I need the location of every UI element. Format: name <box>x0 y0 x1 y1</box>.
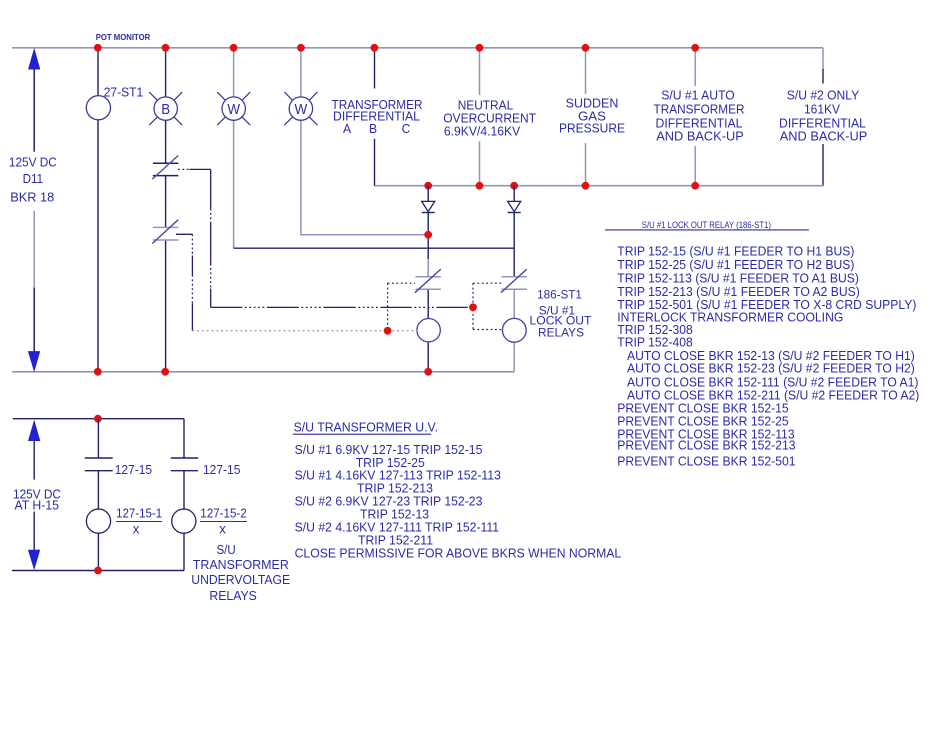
label S/U #1 AUTO TRANSFORMER DIFFERENTIAL AND BACK-UP <box>654 88 745 144</box>
arrow: 125V DC supply (up) <box>28 48 40 70</box>
svg-text:AND BACK-UP: AND BACK-UP <box>780 128 868 143</box>
wire: AT H-15 arrow stem <box>33 441 35 551</box>
wire: contact1 tap dotted horizontal <box>178 168 211 170</box>
svg-text:161KV: 161KV <box>804 102 840 117</box>
wire: transformer differential column <box>374 48 376 186</box>
svg-text:27-ST1: 27-ST1 <box>104 85 144 100</box>
svg-text:AT H-15: AT H-15 <box>15 498 60 513</box>
wire: lower horizontal bus of lockout branches <box>375 185 824 187</box>
diode (left) <box>422 201 435 212</box>
svg-text:S/U #1 AUTO: S/U #1 AUTO <box>661 88 735 103</box>
svg-text:CLOSE PERMISSIVE FOR ABOVE BKR: CLOSE PERMISSIVE FOR ABOVE BKRS WHEN NOR… <box>295 546 622 561</box>
relay 27-ST1 (circle) <box>86 96 110 120</box>
svg-text:186-ST1: 186-ST1 <box>537 287 582 301</box>
junction dot on dotted line (left) <box>384 327 392 335</box>
relay coil 186-ST1 #1 (left circle) <box>417 319 440 342</box>
wire: neutral overcurrent column <box>479 48 481 186</box>
breaker contact (B column lower) <box>152 220 178 244</box>
svg-text:127-15-1: 127-15-1 <box>116 506 162 521</box>
wire: 27-ST1 column vertical <box>97 48 99 372</box>
wire: right branch vertical (S/U #2 column) <box>822 48 824 187</box>
arrow: return (down) <box>28 351 40 372</box>
svg-text:x: x <box>219 521 226 537</box>
svg-text:W: W <box>227 102 240 118</box>
svg-text:C: C <box>402 121 411 136</box>
junction dot on section2 top bus <box>94 415 102 423</box>
svg-text:PREVENT CLOSE BKR 152-501: PREVENT CLOSE BKR 152-501 <box>617 454 795 469</box>
label 186-ST1 S/U #1 LOCK OUT RELAYS <box>530 287 593 339</box>
wire: second section top bus <box>13 418 184 420</box>
junction dots on top bus <box>94 44 699 52</box>
wire: sudden gas pressure column <box>585 48 587 186</box>
wire: lamp B column vertical <box>165 48 167 372</box>
svg-text:127-15-2: 127-15-2 <box>200 506 246 521</box>
undervoltage trip list <box>295 442 622 561</box>
arrow: AT H-15 return (down) <box>28 550 40 570</box>
contact 127-15 (column 2 bars) <box>171 458 198 471</box>
svg-text:127-15: 127-15 <box>115 462 152 477</box>
wire: linkage vertical from contact2 tap <box>191 234 193 330</box>
wire: contact2 tap horizontal <box>176 233 192 235</box>
svg-text:BKR 18: BKR 18 <box>10 189 54 204</box>
svg-text:RELAYS: RELAYS <box>209 588 257 603</box>
svg-text:127-15: 127-15 <box>203 462 240 477</box>
indicating lamp W2 <box>284 92 317 125</box>
wire: dash-dot horizontal to 473 node <box>211 306 473 308</box>
wire: right diode column vertical <box>513 186 515 372</box>
wire: UV relay column 1 <box>97 419 99 571</box>
svg-text:UNDERVOLTAGE: UNDERVOLTAGE <box>191 572 290 587</box>
svg-text:W: W <box>295 102 308 118</box>
junction dot at dash-dot node (right) <box>469 303 477 311</box>
label 127-15-1 with underline and x <box>116 506 162 537</box>
wire: W2 to diode junction horizontal <box>301 234 428 236</box>
svg-text:TRANSFORMER: TRANSFORMER <box>654 102 745 117</box>
svg-text:B: B <box>369 121 377 136</box>
junction dots on bottom bus <box>94 368 432 376</box>
breaker contact (B column upper) <box>152 156 178 180</box>
svg-text:TRANSFORMER: TRANSFORMER <box>193 557 289 572</box>
label 125V DC D11 BKR 18 <box>9 155 57 205</box>
wire: lamp W2 column vertical <box>300 48 302 236</box>
svg-text:S/U: S/U <box>217 542 236 557</box>
wire: 125V DC positive bus (top horizontal) <box>12 47 823 49</box>
junction dot at diode/W2 node <box>424 231 432 239</box>
svg-text:B: B <box>161 102 170 118</box>
svg-text:PREVENT CLOSE BKR 152-213: PREVENT CLOSE BKR 152-213 <box>617 438 795 453</box>
wire: S/U #1 auto transformer column <box>694 48 696 186</box>
svg-text:AND BACK-UP: AND BACK-UP <box>656 128 744 143</box>
svg-text:125V DC: 125V DC <box>9 155 57 170</box>
wire: left diode column vertical <box>427 186 429 372</box>
underline for heading <box>605 229 809 231</box>
wire: dotted light horizontal to left coil <box>192 330 417 332</box>
underline for S/U TRANSFORMER U.V. <box>293 433 431 435</box>
wire: dotted linkage at right contact <box>473 283 503 329</box>
label TRANSFORMER DIFFERENTIAL A B C <box>332 97 423 136</box>
svg-text:A: A <box>343 121 351 136</box>
breaker contact 152 (right lockout column) <box>501 269 527 293</box>
label 125V DC AT H-15 <box>13 487 61 513</box>
wire: lamp W1 column vertical <box>233 48 235 248</box>
wire: dotted linkage at left contact <box>388 283 415 330</box>
label S/U #2 ONLY 161KV DIFFERENTIAL AND BACK-UP <box>779 88 867 144</box>
svg-text:S/U #1 LOCK OUT RELAY (186-ST1: S/U #1 LOCK OUT RELAY (186-ST1) <box>642 220 771 230</box>
relay coil 127-15-2 (circle) <box>172 509 196 533</box>
label 127-15-2 with underline and x <box>200 506 247 537</box>
svg-text:PRESSURE: PRESSURE <box>559 121 625 136</box>
contact 127-15 (column 1 bars) <box>85 458 113 471</box>
arrow: AT H-15 supply (up) <box>28 420 40 441</box>
svg-text:D11: D11 <box>23 171 43 186</box>
label SUDDEN GAS PRESSURE <box>559 96 625 136</box>
lockout relay function list <box>617 244 919 469</box>
label NEUTRAL OVERCURRENT 6.9KV/4.16KV <box>443 98 536 139</box>
wire: 125V DC arrow stem <box>33 69 35 352</box>
breaker contact 152 (left lockout column) <box>415 269 441 293</box>
relay coil 186-ST1 #2 (right circle) <box>502 318 526 342</box>
indicating lamp W1 <box>217 92 250 125</box>
diode (right) <box>508 201 521 212</box>
wire: bottom return bus of top section <box>12 371 514 373</box>
wire: linkage vertical from contact1 tap <box>210 169 212 307</box>
junction dots on lower bus <box>424 182 699 190</box>
svg-text:S/U #2 ONLY: S/U #2 ONLY <box>787 88 860 103</box>
svg-text:RELAYS: RELAYS <box>538 325 584 339</box>
svg-text:POT MONITOR: POT MONITOR <box>96 32 151 42</box>
wire: UV relay column 2 <box>183 419 185 571</box>
wire: W1 to 186-ST1 column horizontal (dark) <box>234 247 515 249</box>
svg-text:x: x <box>133 521 140 537</box>
relay coil 127-15-1 (circle) <box>86 509 110 533</box>
svg-text:6.9KV/4.16KV: 6.9KV/4.16KV <box>444 123 521 138</box>
wire: second section bottom bus <box>12 570 184 572</box>
svg-text:S/U TRANSFORMER U.V.: S/U TRANSFORMER U.V. <box>294 420 438 435</box>
junction dot on section2 bottom bus <box>94 567 102 575</box>
label S/U TRANSFORMER UNDERVOLTAGE RELAYS <box>191 542 290 603</box>
indicating lamp B <box>149 92 182 125</box>
